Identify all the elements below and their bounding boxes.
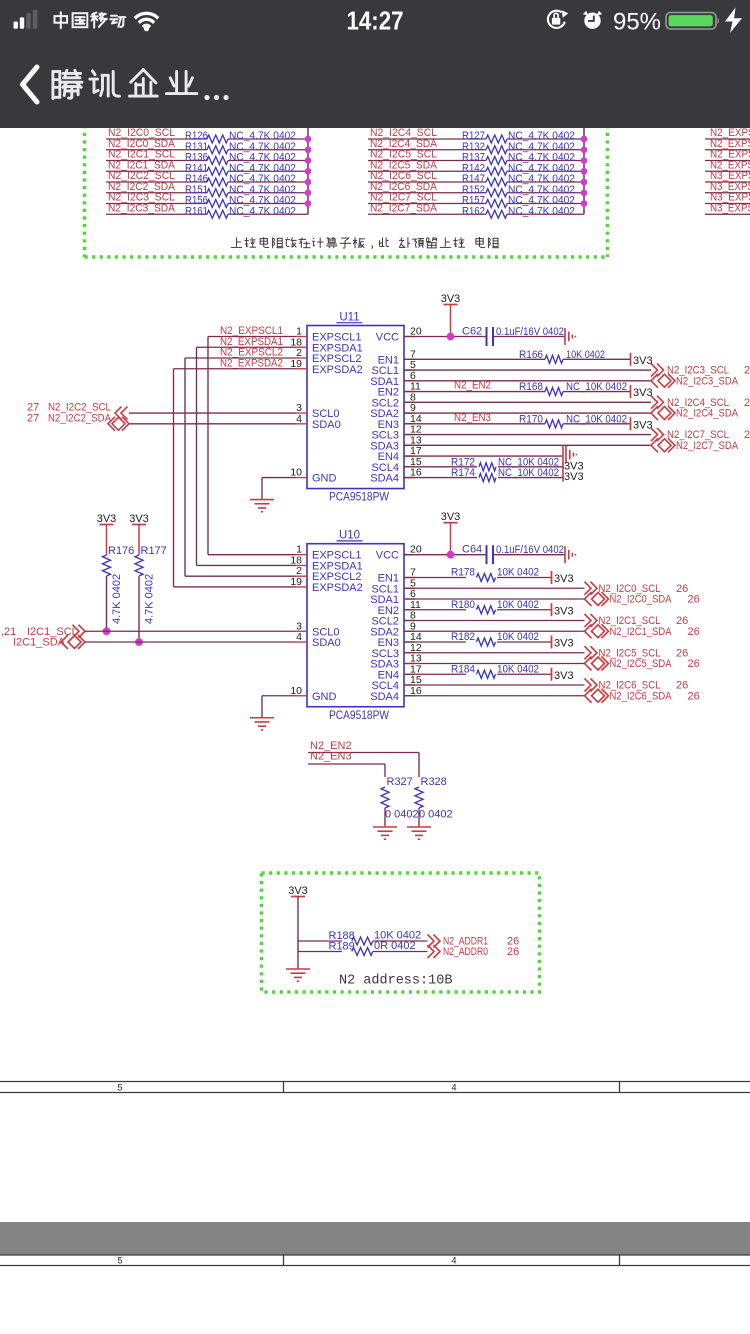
wire I2C1_SCL: [85, 630, 296, 632]
junction: [305, 189, 312, 196]
svg-text:R162: R162: [462, 205, 485, 217]
svg-text:3V3: 3V3: [633, 355, 653, 367]
svg-text:R170: R170: [519, 413, 543, 425]
svg-text:4: 4: [296, 413, 302, 425]
wire N2_I2C6_SCL: [368, 181, 486, 183]
off-page connector I2C1_SDA: [61, 635, 85, 649]
svg-text:R182: R182: [451, 631, 475, 643]
junction: [581, 157, 588, 164]
pin 2 EXPSCL2: [296, 575, 307, 577]
wire R188 to connector: [373, 940, 428, 942]
off-page connector N2_I2C7_SDA: [651, 438, 675, 452]
svg-text:N2_I2C5_SDA: N2_I2C5_SDA: [610, 658, 673, 670]
svg-text:R189: R189: [329, 941, 355, 953]
svg-text:I2C1_SDA: I2C1_SDA: [13, 637, 66, 649]
svg-text:27: 27: [27, 412, 39, 424]
alarm clock icon: [583, 11, 588, 16]
svg-text:R178: R178: [451, 567, 475, 579]
power 3V3 (sideways): [551, 603, 553, 616]
junction: [581, 136, 588, 143]
comment text: pull-up resistors on compute daughter board, reserved here: [231, 238, 242, 248]
svg-text:3V3: 3V3: [554, 638, 574, 650]
svg-text:R168: R168: [519, 381, 543, 393]
svg-text:GND: GND: [312, 473, 337, 485]
svg-text:SDA4: SDA4: [370, 691, 399, 703]
junction: [581, 200, 588, 207]
pin 3 SCL0: [296, 412, 307, 414]
ground (rotated) for C62: [565, 328, 575, 345]
pin 1 EXPSCL1: [296, 336, 307, 338]
svg-text:R177: R177: [141, 545, 167, 557]
svg-text:10K 0402: 10K 0402: [497, 567, 539, 579]
wire EN row: [404, 391, 545, 393]
wire N2_EXPSDA1: [705, 149, 750, 151]
svg-text:3V3: 3V3: [554, 573, 574, 585]
junction: [305, 200, 312, 207]
net N2_I2C2_SDA wire: [129, 423, 296, 425]
svg-text:26: 26: [688, 658, 700, 670]
off-page connector N2_ADDR0: [428, 945, 441, 958]
ground U10: [250, 718, 274, 730]
wire to 3V3: [497, 673, 552, 675]
svg-text:EXPSDA2: EXPSDA2: [312, 364, 363, 376]
sheet border strip 1: [0, 1082, 750, 1093]
wire N2_I2C1_SDA: [106, 170, 207, 172]
off-page connector N2_I2C1_SDA: [585, 624, 609, 638]
off-page connector N2_I2C4_SCL: [651, 396, 664, 409]
wire N2_EN2: [308, 752, 419, 754]
wire N2_I2C7_SDA: [404, 444, 651, 446]
wire R172 row: [404, 466, 477, 468]
wire N2_I2C0_SCL: [404, 587, 585, 589]
wire vertical 3V3 tie: [562, 445, 564, 481]
pin 11 EN2: [404, 609, 415, 611]
svg-text:0R 0402: 0R 0402: [374, 940, 416, 952]
pin 14 EN3: [404, 641, 415, 643]
wire EN4 to 3V3: [404, 455, 563, 457]
pin 18 EXPSDA1: [296, 564, 307, 566]
gray separator band: [0, 1222, 750, 1255]
op-amp/IC U11 PCA9518PW box: [307, 326, 404, 489]
svg-text:10: 10: [290, 467, 302, 479]
svg-text:3V3: 3V3: [633, 387, 653, 399]
off-page connector N2_I2C4_SDA: [651, 406, 675, 420]
pin 16 SDA4: [404, 695, 415, 697]
junction: [581, 146, 588, 153]
wire VCC: [404, 336, 486, 338]
header: iOS status + nav bar: [0, 0, 750, 128]
pin 5 SCL1: [404, 369, 415, 371]
pin 6 SDA1: [404, 598, 415, 600]
net N2_I2C2_SCL wire: [129, 412, 296, 414]
svg-text:N2 address:10B: N2 address:10B: [339, 974, 452, 989]
svg-text:N2_I2C7_SDA: N2_I2C7_SDA: [676, 440, 739, 452]
svg-text:26: 26: [688, 690, 700, 702]
pin 3 SCL0: [296, 630, 307, 632]
pin 12 SCL3: [404, 652, 415, 654]
svg-text:N2_EXPSDA2: N2_EXPSDA2: [220, 357, 283, 369]
junction R177: [135, 638, 143, 646]
svg-text:R184: R184: [451, 663, 475, 675]
pin 7 EN1: [404, 577, 415, 579]
off-page connector N2_I2C2_SCL: [115, 407, 128, 420]
pin 19 EXPSDA2: [296, 586, 307, 588]
svg-text:16: 16: [410, 685, 422, 697]
wire EN row: [404, 641, 466, 643]
wire N2_I2C2_SCL: [106, 181, 207, 183]
sheet border strip 2: [0, 1255, 750, 1266]
wire EN row: [404, 673, 466, 675]
svg-text:N2_I2C3_SDA: N2_I2C3_SDA: [108, 202, 176, 214]
svg-text:3V3: 3V3: [288, 885, 308, 897]
svg-text:C62: C62: [462, 326, 482, 338]
wire cap to gnd: [493, 336, 565, 338]
wire N2_I2C7_SCL: [368, 203, 486, 205]
wire to 3V3: [563, 358, 631, 360]
pin 10 GND: [296, 695, 307, 697]
svg-text:26: 26: [507, 946, 519, 958]
charging bolt: [725, 8, 742, 34]
wire R177 top: [138, 525, 140, 556]
power 3V3 (sideways): [551, 571, 553, 584]
pin 17 EN4: [404, 455, 415, 457]
wire N2_I2C4_SDA: [404, 412, 651, 414]
wire N2_I2C0_SDA: [106, 149, 207, 151]
wire N2_I2C5_SCL: [368, 160, 486, 162]
ground R328: [407, 827, 431, 839]
svg-text:3V3: 3V3: [97, 513, 117, 525]
junction: [305, 146, 312, 153]
svg-text:N2_I2C2_SDA: N2_I2C2_SDA: [48, 412, 112, 424]
wire R189 to connector: [373, 951, 428, 953]
wire to 3V3: [497, 577, 552, 579]
off-page connector N2_I2C6_SCL: [585, 679, 598, 692]
wire N2_I2C0_SCL: [106, 138, 207, 140]
wire R328 to gnd: [418, 808, 420, 827]
wire N2_I2C1_SCL: [404, 620, 585, 622]
wire N2_I2C6_SCL: [404, 684, 585, 686]
svg-text:R176: R176: [108, 545, 134, 557]
comment box (green dashed) around pull-up arrays: [85, 110, 608, 257]
pin 7 EN1: [404, 358, 415, 360]
wire N2_I2C4_SCL: [368, 138, 486, 140]
wire N2_EXPSDA1 U11 to U10: [197, 346, 297, 348]
rotation lock icon: [548, 11, 565, 28]
svg-text:N2_I2C0_SDA: N2_I2C0_SDA: [610, 594, 673, 606]
svg-text:4.7K 0402: 4.7K 0402: [111, 574, 123, 624]
svg-text:26: 26: [688, 594, 700, 606]
comment box (green dashed) N2 address: [262, 873, 540, 992]
wire N2_EXPSCL1: [705, 138, 750, 140]
svg-text:U11: U11: [339, 312, 359, 324]
wire N2_EXPSCL2 U11 to U10: [185, 357, 296, 359]
svg-text:SDA0: SDA0: [312, 419, 341, 431]
svg-text:5: 5: [117, 1256, 122, 1266]
off-page connector N2_I2C7_SCL: [651, 428, 664, 441]
power 3V3 (sideways): [551, 636, 553, 649]
ground R327: [373, 827, 397, 839]
pin 20 VCC: [404, 554, 415, 556]
junction VCC/3V3: [447, 333, 455, 341]
power 3V3 (sideways): [630, 417, 632, 430]
svg-text:R180: R180: [451, 599, 475, 611]
svg-text:3V3: 3V3: [564, 471, 584, 483]
pin 8 SCL2: [404, 620, 415, 622]
svg-text:3V3: 3V3: [441, 293, 461, 305]
wire EN row: [404, 423, 545, 425]
wire to 3V3 tie: [498, 466, 563, 468]
svg-text:R174: R174: [451, 467, 475, 479]
pin 18 EXPSDA1: [296, 346, 307, 348]
svg-text:14:27: 14:27: [347, 6, 404, 36]
pin 12 SCL3: [404, 434, 415, 436]
off-page connector N2_I2C0_SDA: [585, 592, 609, 606]
off-page connector N2_ADDR1: [428, 935, 441, 948]
junction: [305, 179, 312, 186]
wire R327 to gnd: [384, 808, 386, 827]
pin 4 SDA0: [296, 641, 307, 643]
off-page connector N2_I2C2_SDA: [108, 417, 129, 431]
svg-text:5: 5: [117, 1083, 122, 1093]
svg-text:4.7K 0402: 4.7K 0402: [144, 574, 156, 624]
ground (rotated) for C64: [565, 546, 575, 563]
wire 3V3 vertical: [297, 897, 299, 970]
svg-text:N2_I2C7_SDA: N2_I2C7_SDA: [370, 202, 438, 214]
off-page connector N2_I2C0_SCL: [585, 582, 598, 595]
svg-text:EXPSDA2: EXPSDA2: [312, 582, 363, 594]
wire N2_I2C5_SDA: [368, 170, 486, 172]
off-page connector N2_I2C5_SCL: [585, 646, 598, 659]
svg-text:3V3: 3V3: [441, 511, 461, 523]
wire N2_I2C3_SCL: [106, 203, 207, 205]
wire R188 row: [298, 940, 342, 942]
svg-text:PCA9518PW: PCA9518PW: [329, 492, 389, 504]
svg-text:3V3: 3V3: [129, 513, 149, 525]
ground (addr): [286, 969, 310, 981]
svg-text:26: 26: [676, 615, 688, 627]
svg-text:GND: GND: [312, 691, 337, 703]
svg-text:SDA4: SDA4: [370, 473, 399, 485]
wire N2_I2C6_SDA: [404, 695, 585, 697]
junction: [305, 157, 312, 164]
junction: [305, 136, 312, 143]
svg-text:10K 0402: 10K 0402: [497, 599, 539, 611]
wire N2_I2C6_SDA: [368, 192, 486, 194]
wire EN row: [404, 358, 545, 360]
op-amp/IC U10 PCA9518PW box: [307, 544, 404, 707]
svg-text:3V3: 3V3: [633, 419, 653, 431]
svg-text:26: 26: [676, 647, 688, 659]
svg-text:10K 0402: 10K 0402: [497, 631, 539, 643]
svg-text:3V3: 3V3: [554, 670, 574, 682]
svg-text:26: 26: [744, 365, 750, 377]
svg-text:4: 4: [296, 631, 302, 643]
svg-text:10: 10: [290, 685, 302, 697]
pin 4 SDA0: [296, 423, 307, 425]
power 3V3 (sideways): [630, 385, 632, 398]
off-page connector N2_I2C6_SDA: [585, 689, 609, 703]
pin 20 VCC: [404, 336, 415, 338]
wire N3_EXPSDA2: [705, 213, 750, 215]
off-page connector N2_I2C5_SDA: [585, 657, 609, 671]
svg-text:26: 26: [744, 397, 750, 409]
wire to 3V3: [563, 391, 631, 393]
svg-text:NC_4.7K 0402: NC_4.7K 0402: [508, 205, 575, 217]
pin 2 EXPSCL2: [296, 357, 307, 359]
wire N3_EXPSCL2: [705, 203, 750, 205]
wire R174 row: [404, 477, 477, 479]
svg-text:C64: C64: [462, 544, 482, 556]
off-page connector N2_I2C3_SDA: [651, 374, 675, 388]
pin 14 EN3: [404, 423, 415, 425]
wire U11 GND: [262, 477, 296, 479]
svg-text:26: 26: [744, 429, 750, 441]
pin 8 SCL2: [404, 401, 415, 403]
off-page connector N2_I2C3_SCL: [651, 364, 664, 377]
svg-text:SDA0: SDA0: [312, 637, 341, 649]
svg-text:19: 19: [290, 358, 302, 370]
pin 19 EXPSDA2: [296, 368, 307, 370]
svg-text:10K 0402: 10K 0402: [497, 663, 539, 675]
pin 5 SCL1: [404, 587, 415, 589]
svg-text:N2_ADDR0: N2_ADDR0: [443, 946, 488, 958]
svg-text:N2_I2C6_SDA: N2_I2C6_SDA: [610, 690, 673, 702]
svg-text:20: 20: [410, 544, 422, 556]
svg-text:PCA9518PW: PCA9518PW: [329, 710, 389, 722]
svg-text:4: 4: [451, 1256, 456, 1266]
wire to 3V3: [563, 423, 631, 425]
wire N2_I2C3_SDA: [404, 380, 651, 382]
junction: [581, 189, 588, 196]
wire cap to gnd: [493, 554, 565, 556]
wire N2_EXPSDA2 U11 to U10: [174, 368, 297, 370]
wire to 3V3 tie: [498, 477, 563, 479]
wire N2_I2C7_SDA: [368, 213, 486, 215]
svg-text:26: 26: [676, 680, 688, 692]
svg-text:R166: R166: [519, 349, 543, 361]
power 3V3 (sideways): [551, 668, 553, 681]
bus wire vertical: [583, 128, 585, 214]
signal bars: [14, 10, 38, 29]
svg-text:N2_EN3: N2_EN3: [310, 751, 352, 763]
bus wire vertical: [307, 128, 309, 214]
wire R176 top: [106, 525, 108, 556]
wire I2C1_SDA: [85, 641, 296, 643]
wire N2_EXPSCL2: [705, 160, 750, 162]
wire to 3V3: [497, 641, 552, 643]
svg-text:VCC: VCC: [376, 550, 399, 562]
svg-text:16: 16: [410, 467, 422, 479]
wire to 3V3: [497, 609, 552, 611]
pin 1 EXPSCL1: [296, 554, 307, 556]
wire N2_EXPSDA2: [705, 170, 750, 172]
wire N2_I2C5_SDA: [404, 663, 585, 665]
pin 10 GND: [296, 477, 307, 479]
svg-text:3V3: 3V3: [554, 605, 574, 617]
wire N2_I2C2_SDA: [106, 192, 207, 194]
wire N2_I2C4_SDA: [368, 149, 486, 151]
title 腾讯企业...: [53, 70, 82, 98]
pin 16 SDA4: [404, 477, 415, 479]
pin 15 SCL4: [404, 466, 415, 468]
wire N2_I2C5_SCL: [404, 652, 585, 654]
svg-text:26: 26: [676, 583, 688, 595]
svg-text:0 0402: 0 0402: [385, 809, 419, 821]
wire N2_I2C1_SDA: [404, 630, 585, 632]
svg-text:NC_4.7K 0402: NC_4.7K 0402: [229, 205, 296, 217]
wire N2_I2C3_SCL: [404, 369, 651, 371]
junction VCC/3V3: [447, 551, 455, 559]
pin 13 SDA3: [404, 663, 415, 665]
wire U10 GND: [262, 695, 296, 697]
pin 9 SDA2: [404, 630, 415, 632]
back chevron: [23, 67, 38, 102]
carrier 中国移动: [55, 12, 68, 28]
pin 15 SCL4: [404, 684, 415, 686]
svg-text:19: 19: [290, 576, 302, 588]
off-page connector N2_I2C1_SCL: [585, 614, 598, 627]
wire N2_I2C1_SCL: [106, 160, 207, 162]
junction: [305, 168, 312, 175]
wire R177 bottom: [138, 576, 140, 642]
wire N3_EXPSDA1: [705, 192, 750, 194]
wire N2_I2C7_SCL: [404, 434, 651, 436]
svg-text:VCC: VCC: [376, 332, 399, 344]
wire N2_I2C0_SDA: [404, 598, 585, 600]
pin 9 SDA2: [404, 412, 415, 414]
svg-text:U10: U10: [339, 530, 360, 542]
svg-text:R327: R327: [387, 776, 413, 788]
wire N2_EXPSCL1 U11 to U10: [208, 336, 296, 338]
wire N2_EN3: [308, 763, 385, 765]
wire N2_I2C3_SDA: [106, 213, 207, 215]
pin 17 EN4: [404, 673, 415, 675]
svg-text:N2_I2C3_SDA: N2_I2C3_SDA: [676, 375, 739, 387]
battery icon: [666, 13, 716, 30]
svg-text:R161: R161: [185, 205, 208, 217]
svg-text:N2_I2C1_SDA: N2_I2C1_SDA: [610, 626, 673, 638]
svg-text:4: 4: [451, 1083, 456, 1093]
off-page connector I2C1_SCL: [73, 625, 86, 638]
svg-text:R328: R328: [421, 776, 447, 788]
power 3V3 (sideways): [630, 353, 632, 366]
power/gnd bars (rotated) EN4: [566, 446, 576, 463]
wire VCC: [404, 554, 486, 556]
svg-text:N3_EXPSDA2: N3_EXPSDA2: [710, 202, 750, 214]
junction R176: [103, 627, 111, 635]
junction: [581, 179, 588, 186]
pin 13 SDA3: [404, 444, 415, 446]
wire N2_I2C4_SCL: [404, 401, 651, 403]
svg-text:26: 26: [688, 626, 700, 638]
wire R189 row: [298, 951, 342, 953]
wire R176 bottom: [106, 576, 108, 631]
junction: [581, 168, 588, 175]
pin 11 EN2: [404, 391, 415, 393]
svg-text:95%: 95%: [613, 9, 661, 36]
ground U11: [250, 500, 274, 512]
svg-text:20: 20: [410, 326, 422, 338]
wire EN row: [404, 609, 466, 611]
svg-text:N2_I2C4_SDA: N2_I2C4_SDA: [676, 408, 739, 420]
svg-text:0 0402: 0 0402: [419, 809, 453, 821]
pin 6 SDA1: [404, 380, 415, 382]
wire EN row: [404, 577, 466, 579]
wire N3_EXPSCL1: [705, 181, 750, 183]
